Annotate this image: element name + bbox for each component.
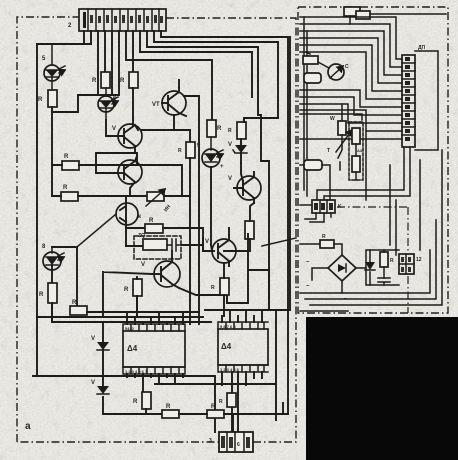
- resistor R1: [38, 90, 57, 107]
- transistor VT7: [205, 235, 236, 266]
- small rounded K3: [304, 73, 321, 83]
- svg-text:ДП: ДП: [418, 45, 426, 51]
- resistor R19: [219, 393, 236, 407]
- svg-text:R: R: [120, 78, 125, 84]
- connector XP (vertical strip): [402, 45, 438, 150]
- svg-text:R: R: [92, 78, 97, 84]
- svg-text:a: a: [25, 421, 31, 432]
- resistor R10: [70, 300, 87, 315]
- resistor R3: [61, 185, 78, 201]
- LED VD4: [197, 137, 224, 170]
- wire pin12 right loop: [161, 31, 288, 414]
- wire pin2: [37, 31, 91, 376]
- svg-text:C: C: [345, 64, 349, 70]
- wire relay row to X3: [337, 207, 408, 313]
- wire VT5: [172, 251, 231, 303]
- transistor VT6: [228, 163, 261, 203]
- bus wires right: [300, 17, 402, 59]
- resistor R16: [133, 392, 151, 409]
- wire R17 R18: [179, 403, 288, 432]
- wire pin8: [132, 31, 134, 72]
- wire pin5: [98, 31, 112, 95]
- resistor R22: [300, 234, 342, 255]
- resistor R14 under VT6: [245, 221, 254, 239]
- wire R8: [136, 277, 138, 316]
- resistor R18: [207, 404, 224, 418]
- wire strip bottom: [317, 147, 410, 200]
- black censor rectangle: [306, 317, 458, 460]
- wire strip-to-lower bundle: [390, 160, 420, 255]
- wire pin11 loop: [154, 31, 278, 122]
- resistor R11 col x190: [178, 142, 195, 158]
- resistor R9: [39, 283, 57, 303]
- wire bridge leads: [312, 268, 366, 293]
- wire rails: [366, 250, 399, 285]
- svg-text:V: V: [141, 262, 145, 268]
- svg-text:12: 12: [416, 257, 422, 263]
- svg-text:W: W: [330, 116, 335, 122]
- bridge rectifier VD10: [306, 255, 356, 302]
- resistor R4: [92, 72, 110, 88]
- svg-text:R: R: [228, 128, 232, 134]
- output block X3: [399, 254, 422, 274]
- wire VT5 base line: [103, 272, 152, 317]
- wire pin7: [126, 31, 212, 120]
- IC DD2 pins bottom: [218, 365, 268, 372]
- wire right col x248: [231, 118, 269, 303]
- wire R16: [145, 409, 147, 414]
- diode VD6: [91, 322, 109, 350]
- svg-text:R: R: [211, 404, 216, 410]
- wire x190 down: [189, 158, 191, 324]
- LED VD3: [42, 244, 64, 283]
- IC DD2 pins top: [218, 322, 268, 329]
- wire R2: [52, 153, 182, 196]
- transistor VT4: [116, 196, 141, 246]
- wire mid joins: [37, 296, 211, 322]
- svg-text:V: V: [228, 142, 232, 148]
- capacitor C10: [378, 278, 390, 285]
- resistor R15 under VT7: [211, 278, 229, 295]
- svg-text:R: R: [217, 126, 222, 132]
- wire VT4 out: [77, 214, 116, 247]
- wire VT1 collector: [179, 80, 199, 324]
- transistor VT2: [112, 124, 142, 153]
- IC DD1 body: [123, 331, 185, 367]
- svg-text:R: R: [149, 218, 154, 224]
- svg-text:R: R: [390, 258, 394, 264]
- wire right loops lower: [205, 37, 290, 316]
- wire R1 to R2: [51, 107, 53, 196]
- crystal ZQ1 dashed box: [134, 233, 182, 259]
- svg-text:V: V: [112, 126, 116, 132]
- wire VD3 top: [52, 246, 77, 248]
- wire R7: [163, 228, 203, 251]
- wire diagonal annotation: [262, 238, 296, 246]
- small rect K2: [303, 52, 318, 64]
- resistor R13 right col: [228, 122, 246, 139]
- resistor R23: [380, 250, 394, 278]
- svg-text:Δ4: Δ4: [221, 342, 232, 351]
- resistor R5: [120, 72, 138, 88]
- svg-text:R: R: [211, 285, 215, 291]
- svg-text:VT: VT: [152, 102, 160, 108]
- wire pin10: [147, 31, 269, 310]
- svg-text:6: 6: [237, 442, 240, 448]
- wire pin1: [83, 31, 85, 44]
- transistor VT1: [152, 88, 186, 116]
- wires DD1 bottom pins: [127, 374, 183, 392]
- svg-text:V: V: [205, 239, 209, 245]
- wire node: [106, 120, 124, 136]
- diode VD7: [91, 350, 109, 394]
- svg-text:R: R: [219, 399, 223, 405]
- component top K1: [344, 7, 446, 24]
- wire pin4: [104, 31, 106, 72]
- wire VT6 emitter: [224, 203, 254, 251]
- IC DD1 pins bottom: [123, 367, 185, 374]
- resistor R17: [162, 404, 179, 418]
- wire VT3: [118, 172, 124, 174]
- wire bottom bus2: [155, 310, 276, 420]
- wire crystal right: [182, 238, 214, 251]
- component K4 loop: [300, 148, 330, 200]
- svg-text:~: ~: [306, 284, 310, 290]
- resistor R8: [124, 279, 142, 296]
- wire x78 down: [76, 247, 78, 306]
- wire double bus pair: [300, 110, 366, 200]
- svg-text:3: 3: [209, 438, 212, 444]
- wires DD1 top pins: [127, 312, 183, 324]
- LED VD1: [42, 44, 65, 90]
- zener VD5: [228, 139, 247, 163]
- IC DD1 pins top: [123, 324, 185, 331]
- wire pin6: [78, 31, 119, 95]
- svg-text:R: R: [124, 287, 129, 293]
- transistor VT5: [141, 258, 180, 288]
- dash-dot frame: [17, 17, 296, 442]
- wire R6 right: [164, 195, 190, 197]
- svg-text:R: R: [133, 399, 138, 405]
- connector X1: [68, 9, 166, 31]
- svg-text:R: R: [39, 292, 44, 298]
- meter P1: [318, 62, 349, 80]
- svg-text:V: V: [91, 336, 95, 342]
- resistor R20 variable: [330, 104, 352, 170]
- wire R5 down: [133, 88, 190, 142]
- wire pin9: [140, 31, 252, 97]
- wire VD1 top tap: [37, 43, 91, 45]
- dashed box thermistors: [349, 122, 363, 180]
- resistor R2: [62, 154, 79, 170]
- svg-text:R: R: [72, 300, 77, 306]
- wires DD2 top pins: [222, 310, 262, 322]
- LED VD2: [98, 88, 118, 120]
- svg-text:ZQ: ZQ: [138, 233, 145, 239]
- wire pin3: [52, 31, 98, 112]
- svg-text:R: R: [166, 404, 171, 410]
- relay block K5: [300, 200, 342, 222]
- rheostat R6: [146, 189, 172, 213]
- connector X2: [209, 432, 253, 452]
- wire bottom bus1: [33, 376, 215, 432]
- wire R10 right: [87, 311, 199, 313]
- svg-text:R: R: [64, 154, 69, 160]
- svg-text:A3: A3: [357, 148, 363, 153]
- wire VD7 down: [103, 397, 162, 414]
- wire left vertical bus pair: [304, 17, 307, 196]
- svg-text:R: R: [178, 148, 182, 154]
- svg-text:к: к: [138, 214, 141, 220]
- svg-text:R: R: [63, 185, 68, 191]
- svg-text:V: V: [91, 380, 95, 386]
- svg-text:T: T: [327, 148, 330, 154]
- transistor VT3: [118, 156, 142, 196]
- resistor R7: [145, 218, 163, 233]
- svg-text:1 2 3 4 5 6 7: 1 2 3 4 5 6 7: [125, 369, 148, 374]
- wire R3: [52, 195, 147, 197]
- diode VD11: [365, 250, 375, 285]
- dash-dot frame right: [298, 7, 448, 313]
- resistor R12: [207, 120, 222, 137]
- wire VD4 down: [211, 167, 212, 251]
- svg-text:+: +: [220, 164, 224, 170]
- bottom return wires: [300, 150, 442, 305]
- wires DD2 bottom pins: [222, 372, 262, 432]
- svg-text:1 2 3 4 5 6: 1 2 3 4 5 6: [220, 367, 240, 372]
- IC DD2 body: [218, 329, 268, 365]
- svg-text:R: R: [322, 234, 326, 240]
- svg-text:V: V: [228, 176, 232, 182]
- svg-text:Δ4: Δ4: [127, 344, 138, 353]
- svg-text:R: R: [38, 97, 43, 103]
- wire VT7 down: [224, 228, 229, 310]
- svg-text:~: ~: [306, 260, 310, 266]
- wire R9 bottom: [51, 303, 53, 322]
